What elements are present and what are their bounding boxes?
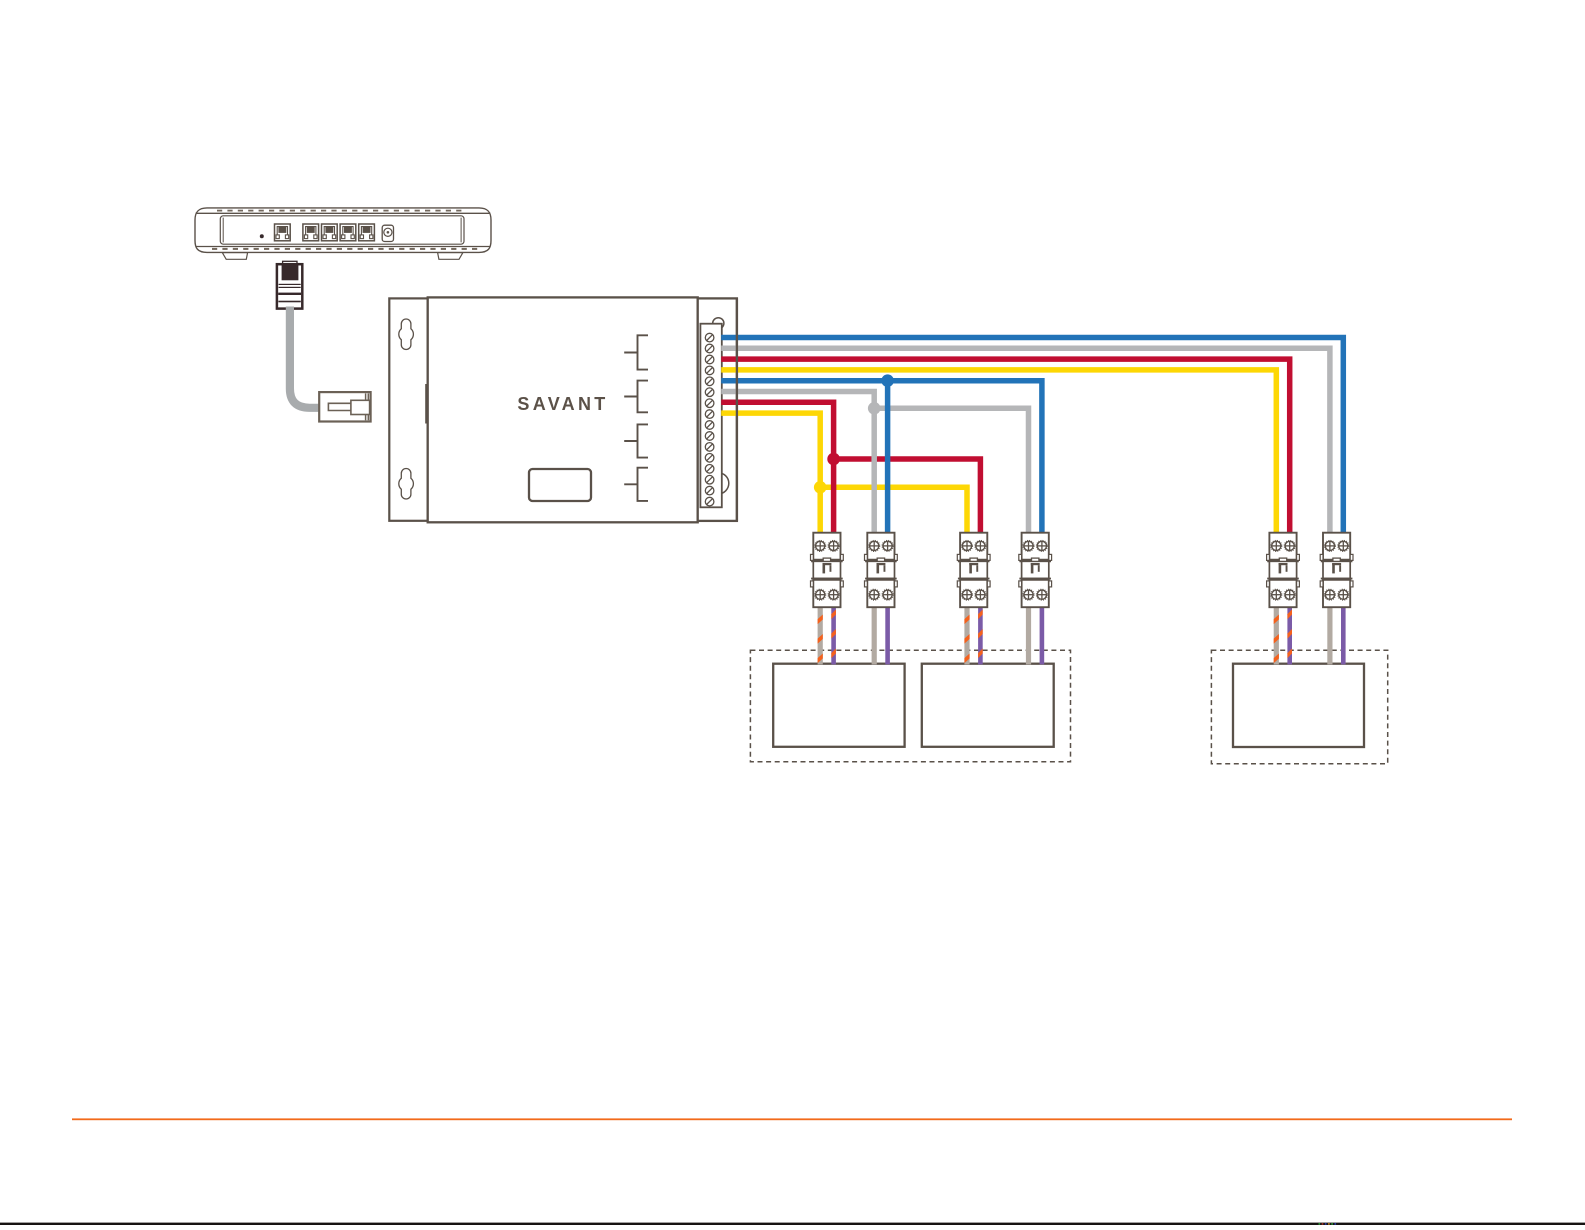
svg-text:SAVANT: SAVANT bbox=[517, 394, 608, 414]
